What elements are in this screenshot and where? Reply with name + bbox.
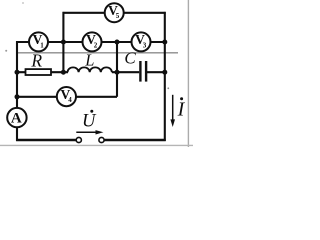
svg-text:1: 1 bbox=[40, 41, 44, 49]
node at mid vertical / row3 bbox=[115, 70, 120, 75]
speck above I arrow bbox=[167, 87, 169, 89]
terminal right bbox=[99, 137, 104, 142]
gray artifact line bbox=[16, 52, 178, 54]
ammeter A bbox=[7, 108, 26, 127]
voltmeter V4 bbox=[57, 87, 76, 106]
wire third row right bbox=[147, 71, 165, 73]
voltmeter V2 bbox=[83, 32, 102, 51]
inductor L bbox=[68, 67, 112, 72]
node at mid vertical / row2 bbox=[115, 40, 120, 45]
resistor R bbox=[26, 69, 52, 75]
node at top-left vertical / row3 bbox=[61, 70, 66, 75]
wire mid vertical bbox=[116, 42, 118, 97]
svg-text:4: 4 bbox=[68, 96, 72, 104]
svg-text:2: 2 bbox=[94, 41, 98, 49]
arrow I bbox=[170, 95, 175, 127]
arrow U bbox=[76, 130, 103, 134]
frame border right bbox=[187, 0, 189, 147]
voltmeter V5 bbox=[105, 3, 124, 22]
node at right vertical / row2 bbox=[162, 40, 167, 45]
voltmeter V1 bbox=[29, 32, 48, 51]
svg-text:L: L bbox=[84, 51, 94, 70]
wire second row bbox=[16, 41, 165, 43]
node at right vertical / row3 bbox=[162, 70, 167, 75]
node at left vertical / V4 row bbox=[15, 94, 20, 99]
wire right vertical bbox=[164, 12, 166, 141]
svg-text:3: 3 bbox=[143, 41, 147, 49]
wire top-left vertical bbox=[62, 12, 64, 72]
node at top-left vertical / row2 bbox=[61, 40, 66, 45]
svg-text:C: C bbox=[124, 49, 136, 68]
node dots bbox=[15, 40, 168, 100]
label I dot bbox=[180, 97, 183, 100]
speck top-left bbox=[22, 2, 24, 4]
wire V4 row bbox=[17, 96, 117, 98]
node at left vertical / row3 bbox=[15, 70, 20, 75]
svg-text:U: U bbox=[82, 112, 97, 132]
wire bottom left bbox=[16, 139, 76, 142]
wire third row left bbox=[17, 71, 68, 73]
wire bottom right bbox=[104, 139, 165, 142]
capacitor C plates bbox=[140, 61, 146, 82]
svg-text:R: R bbox=[30, 50, 42, 70]
svg-text:A: A bbox=[11, 111, 22, 127]
wire top row bbox=[63, 12, 166, 14]
label U dot bbox=[90, 110, 93, 113]
svg-text:5: 5 bbox=[116, 12, 120, 20]
svg-text:I: I bbox=[177, 99, 186, 121]
wire left vertical below ammeter bbox=[16, 127, 18, 141]
wire third row mid bbox=[112, 71, 139, 73]
frame border bottom bbox=[0, 144, 193, 146]
voltmeter V3 bbox=[132, 32, 151, 51]
wire left vertical bbox=[16, 41, 18, 108]
speck left bbox=[5, 50, 7, 52]
terminal left bbox=[76, 137, 81, 142]
